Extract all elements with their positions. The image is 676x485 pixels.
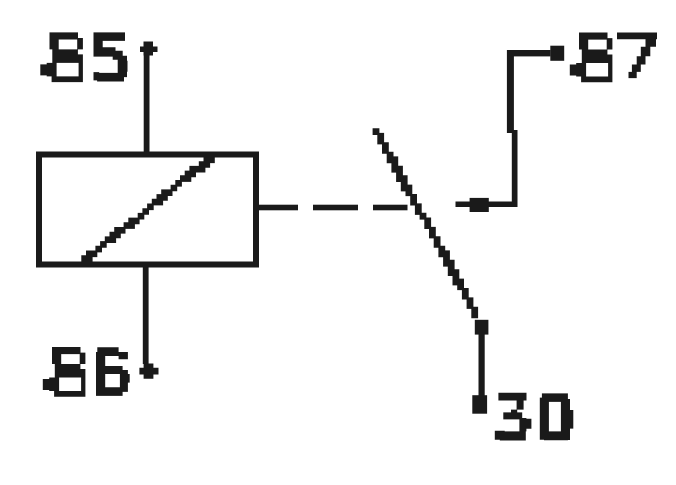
wire coil lead 86 (vertical) xyxy=(143,264,149,364)
wire lead 30 (vertical) xyxy=(479,333,485,396)
wire 87 vertical (lower) xyxy=(512,130,518,205)
label 87 xyxy=(570,33,657,83)
terminal dot 86 xyxy=(139,364,158,379)
wire 87 vertical (upper) xyxy=(507,50,514,133)
switch lever arm xyxy=(373,128,478,318)
wire coil lead 85 (vertical) xyxy=(144,52,150,158)
fixed contact 87 square xyxy=(470,198,489,212)
lever contact square xyxy=(475,320,489,335)
label 30 xyxy=(495,393,574,441)
label 86 xyxy=(43,347,130,397)
relay coil K1 xyxy=(39,155,256,265)
terminal dot 87 xyxy=(550,46,564,61)
coil diagonal stripe xyxy=(81,157,215,267)
terminal dot 85 xyxy=(140,42,158,56)
dashed link segment 3 xyxy=(373,205,408,211)
dashed link segment 2 xyxy=(313,205,358,211)
terminal dot 30 xyxy=(472,395,487,414)
dashed link segment 1 (coil stub) xyxy=(253,205,298,211)
wire 87 horizontal (lower) xyxy=(456,202,518,208)
wire 87 horizontal (top) xyxy=(507,50,550,56)
label 85 xyxy=(40,32,127,82)
